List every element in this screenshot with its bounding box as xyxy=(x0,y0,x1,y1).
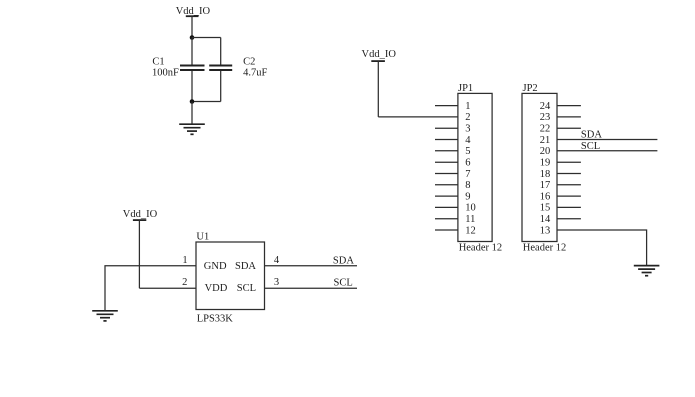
wire U1 pin 1 GND to ground xyxy=(105,266,196,311)
svg-text:19: 19 xyxy=(540,158,551,169)
JP2 pin 23 xyxy=(540,112,581,123)
svg-text:22: 22 xyxy=(540,124,551,135)
capacitor C1 xyxy=(180,38,205,102)
svg-text:Vdd_IO: Vdd_IO xyxy=(362,49,397,60)
JP1 pin 1 xyxy=(435,101,471,112)
svg-text:SDA: SDA xyxy=(235,261,256,272)
svg-text:2: 2 xyxy=(465,112,470,123)
JP2 pin 21 xyxy=(540,135,658,146)
svg-text:3: 3 xyxy=(465,124,470,135)
svg-text:14: 14 xyxy=(540,214,551,225)
svg-text:Vdd_IO: Vdd_IO xyxy=(123,209,158,220)
svg-text:21: 21 xyxy=(540,135,551,146)
JP1 pin 12 xyxy=(435,225,476,236)
svg-text:SDA: SDA xyxy=(581,130,602,141)
JP1 pin 11 xyxy=(435,214,475,225)
svg-text:18: 18 xyxy=(540,169,551,180)
power symbol Vdd_IO (U1 supply) xyxy=(123,209,158,288)
svg-text:8: 8 xyxy=(465,180,470,191)
wire Vdd_IO to U1 pin 2 VDD xyxy=(139,287,196,289)
junction node (caps top rail) xyxy=(190,35,195,40)
svg-text:C1: C1 xyxy=(152,57,164,68)
connector JP1 xyxy=(458,83,492,242)
svg-text:SCL: SCL xyxy=(581,141,600,152)
JP1 pin 3 xyxy=(435,124,471,135)
svg-text:3: 3 xyxy=(274,277,279,288)
svg-text:20: 20 xyxy=(540,146,551,157)
svg-text:4: 4 xyxy=(465,135,471,146)
JP1 pin 4 xyxy=(435,135,471,146)
JP1 pin 8 xyxy=(435,180,471,191)
ground (U1 GND) xyxy=(92,311,118,321)
svg-text:C2: C2 xyxy=(243,57,255,68)
power symbol Vdd_IO (JP1 supply) xyxy=(362,49,397,117)
svg-text:1: 1 xyxy=(465,101,470,112)
svg-text:2: 2 xyxy=(182,277,187,288)
JP2 pin 15 xyxy=(540,203,581,214)
JP2 pin 17 xyxy=(540,180,581,191)
wire U1 pin 3 SCL net xyxy=(265,287,358,289)
svg-text:5: 5 xyxy=(465,146,470,157)
JP2 pin 20 xyxy=(540,146,658,157)
svg-text:23: 23 xyxy=(540,112,551,123)
svg-text:SCL: SCL xyxy=(334,278,353,289)
svg-text:12: 12 xyxy=(465,225,476,236)
svg-text:6: 6 xyxy=(465,158,470,169)
wire Vdd_IO to JP1 pin 2 xyxy=(378,116,458,118)
wire to ground (caps) xyxy=(191,102,193,125)
svg-text:LPS33K: LPS33K xyxy=(197,313,234,324)
JP2 pin 19 xyxy=(540,158,581,169)
JP2 pin 18 xyxy=(540,169,581,180)
wire U1 pin 4 SDA net xyxy=(265,265,358,267)
svg-text:4: 4 xyxy=(274,255,280,266)
svg-text:16: 16 xyxy=(540,191,551,202)
svg-text:11: 11 xyxy=(465,214,475,225)
svg-text:JP2: JP2 xyxy=(523,83,538,94)
ground (JP2 pin 13) xyxy=(634,266,660,276)
svg-text:24: 24 xyxy=(540,101,551,112)
svg-text:1: 1 xyxy=(182,255,187,266)
JP2 pin 22 xyxy=(540,124,581,135)
ground (below decoupling caps) xyxy=(179,124,205,134)
svg-text:100nF: 100nF xyxy=(152,68,179,79)
svg-text:4.7uF: 4.7uF xyxy=(243,68,267,79)
svg-text:10: 10 xyxy=(465,203,476,214)
svg-text:Vdd_IO: Vdd_IO xyxy=(176,6,211,17)
JP1 pin 9 xyxy=(435,191,471,202)
junction node (caps bottom rail) xyxy=(190,99,195,104)
capacitor C2 xyxy=(209,38,232,102)
JP2 pin 13 xyxy=(540,225,647,265)
svg-text:13: 13 xyxy=(540,225,551,236)
JP2 pin 14 xyxy=(540,214,581,225)
svg-text:15: 15 xyxy=(540,203,551,214)
wire bottom rail from C2 xyxy=(192,101,221,103)
JP1 pin 6 xyxy=(435,158,471,169)
JP1 pin 7 xyxy=(435,169,471,180)
svg-text:JP1: JP1 xyxy=(458,83,473,94)
svg-text:Header 12: Header 12 xyxy=(523,243,566,254)
svg-text:17: 17 xyxy=(540,180,551,191)
svg-text:9: 9 xyxy=(465,191,470,202)
power symbol Vdd_IO (top left) xyxy=(176,6,211,38)
svg-text:Header 12: Header 12 xyxy=(459,243,502,254)
svg-text:SCL: SCL xyxy=(237,283,256,294)
JP1 pin 2 xyxy=(465,112,470,123)
svg-text:U1: U1 xyxy=(196,232,209,243)
svg-text:SDA: SDA xyxy=(333,255,354,266)
svg-text:GND: GND xyxy=(204,261,227,272)
wire top rail to C2 xyxy=(192,37,221,39)
IC U1 xyxy=(196,232,265,310)
JP2 pin 24 xyxy=(540,101,581,112)
svg-text:VDD: VDD xyxy=(205,283,228,294)
JP1 pin 10 xyxy=(435,203,476,214)
svg-text:7: 7 xyxy=(465,169,470,180)
JP1 pin 5 xyxy=(435,146,471,157)
connector JP2 xyxy=(522,83,557,242)
JP2 pin 16 xyxy=(540,191,581,202)
